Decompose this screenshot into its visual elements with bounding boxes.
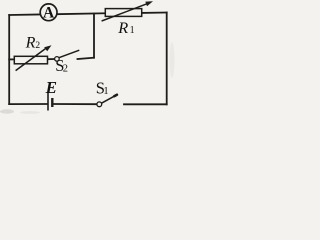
svg-text:R: R: [117, 18, 128, 37]
svg-text:A: A: [43, 5, 55, 22]
svg-text:R: R: [25, 35, 36, 52]
svg-text:1: 1: [103, 86, 108, 97]
svg-text:2: 2: [63, 64, 68, 75]
svg-text:1: 1: [130, 25, 135, 36]
svg-text:2: 2: [35, 41, 40, 51]
svg-text:E: E: [45, 78, 57, 97]
